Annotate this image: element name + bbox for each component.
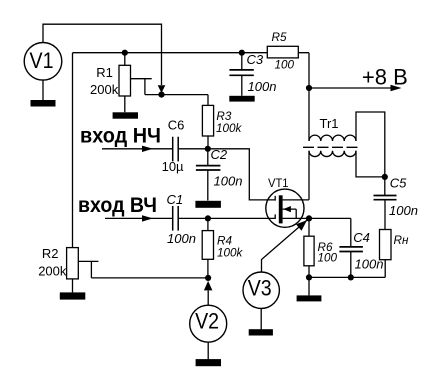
svg-text:C3: C3	[247, 52, 264, 67]
svg-text:C2: C2	[211, 147, 228, 162]
svg-text:вход ВЧ: вход ВЧ	[78, 193, 157, 217]
svg-text:VT1: VT1	[268, 176, 289, 190]
svg-text:100n: 100n	[355, 257, 384, 272]
svg-text:100n: 100n	[389, 203, 418, 218]
svg-text:R2: R2	[42, 246, 59, 261]
svg-text:C5: C5	[390, 176, 407, 191]
svg-text:Rн: Rн	[394, 234, 409, 247]
svg-text:V1: V1	[30, 48, 54, 73]
svg-text:C6: C6	[168, 118, 185, 133]
svg-text:R1: R1	[96, 65, 113, 80]
svg-text:R5: R5	[272, 31, 287, 44]
svg-text:V2: V2	[195, 309, 219, 334]
svg-text:100k: 100k	[217, 246, 244, 259]
svg-text:10µ: 10µ	[162, 159, 184, 174]
svg-text:100k: 100k	[216, 122, 243, 135]
svg-text:+8 В: +8 В	[362, 64, 408, 89]
svg-text:C1: C1	[167, 192, 184, 207]
svg-text:C4: C4	[353, 230, 370, 245]
svg-text:100n: 100n	[214, 174, 243, 189]
svg-text:100: 100	[275, 58, 295, 71]
svg-text:200k: 200k	[90, 82, 119, 97]
svg-text:100n: 100n	[248, 79, 277, 94]
svg-text:100: 100	[318, 251, 338, 264]
svg-text:вход НЧ: вход НЧ	[80, 124, 161, 148]
svg-text:V3: V3	[248, 275, 272, 300]
svg-text:Tr1: Tr1	[320, 116, 339, 131]
svg-text:100n: 100n	[167, 231, 196, 246]
svg-text:200k: 200k	[38, 264, 67, 279]
